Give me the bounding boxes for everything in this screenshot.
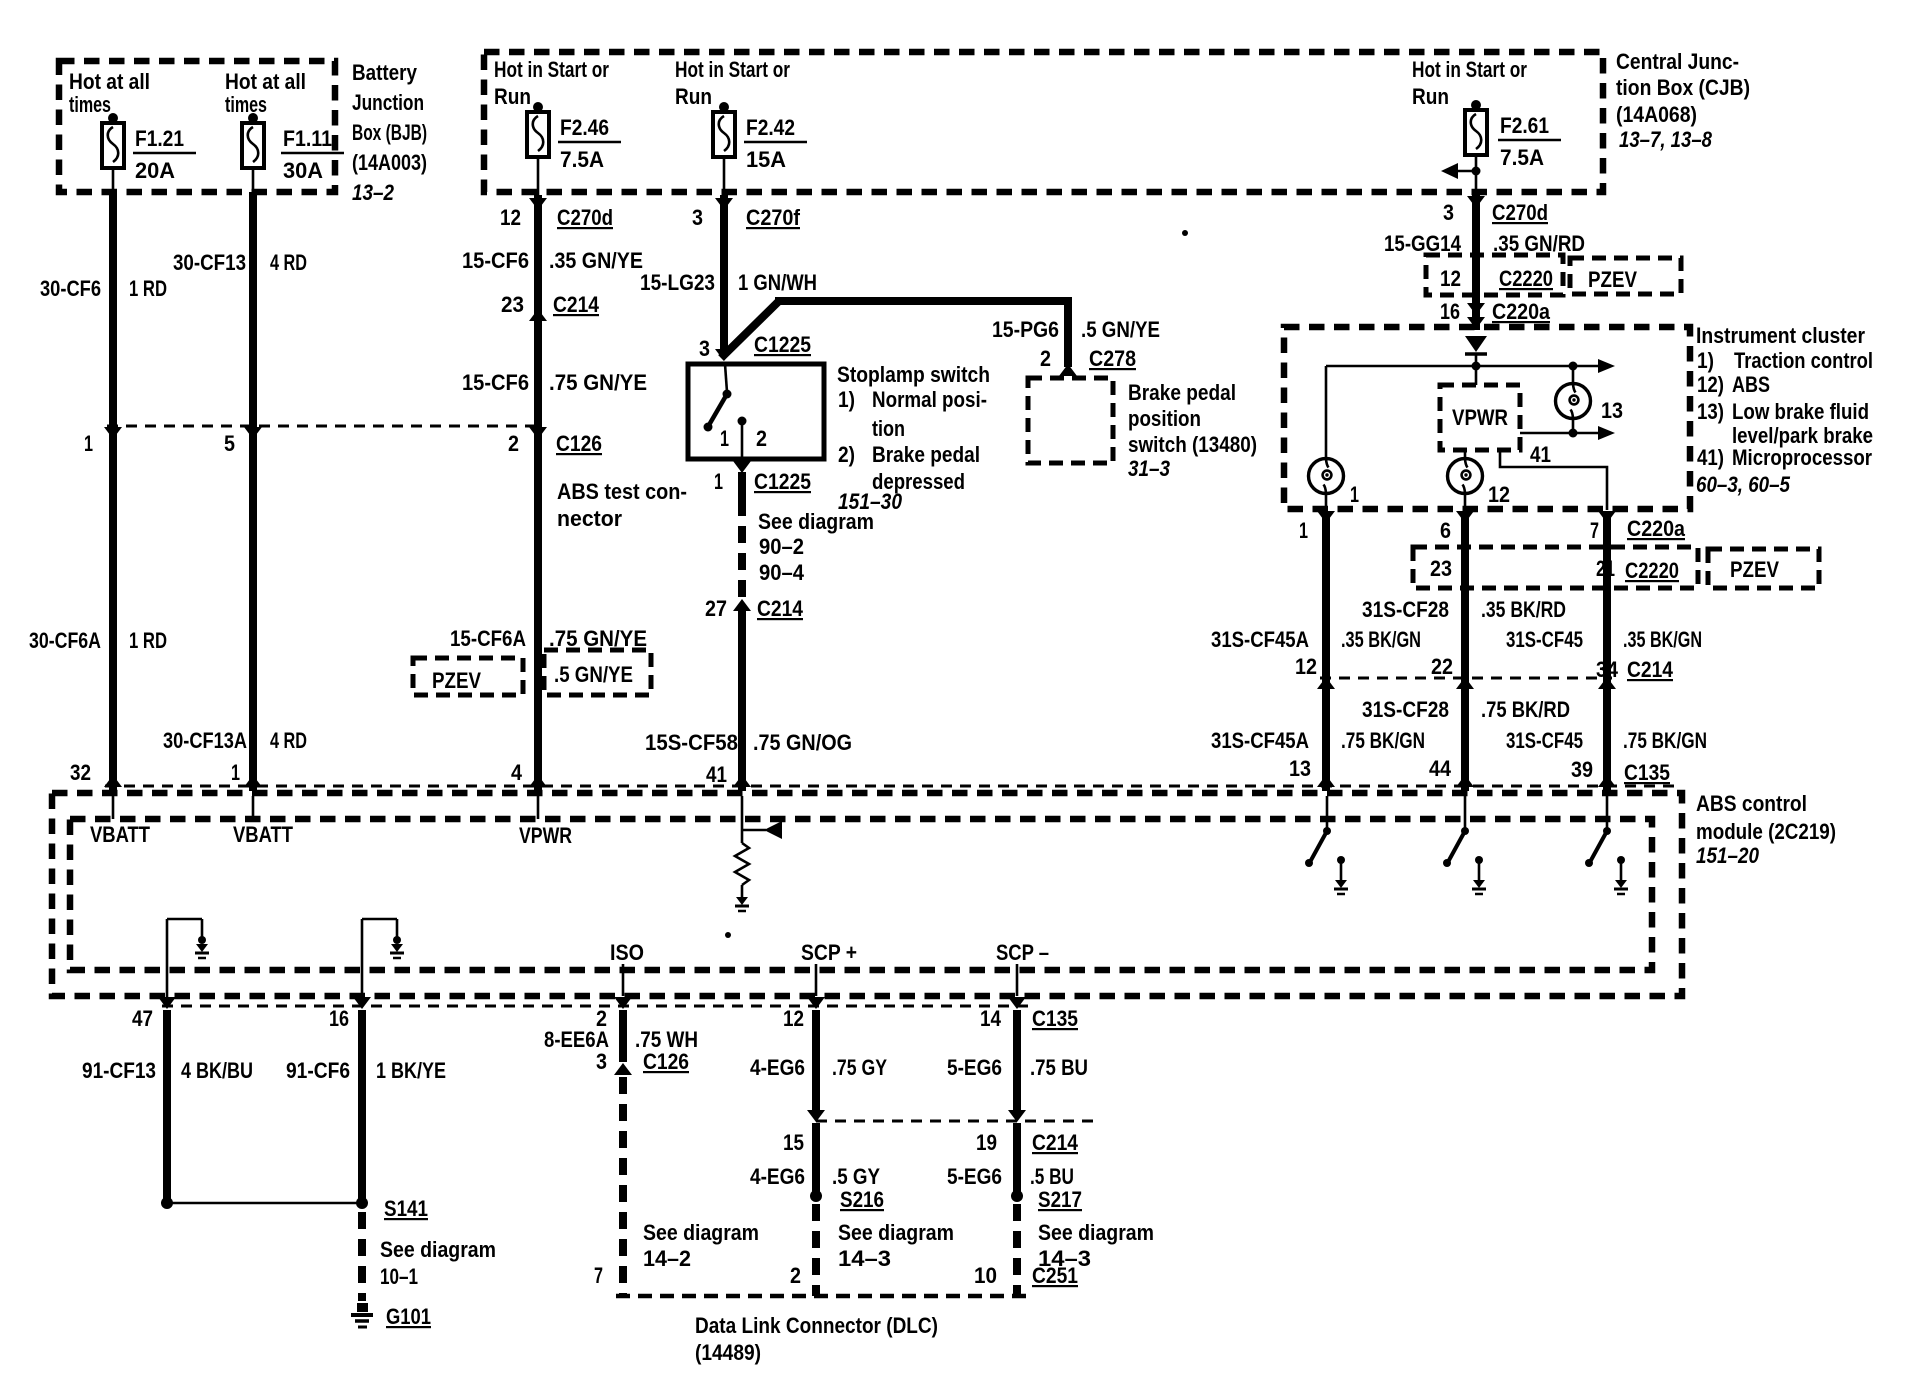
wire 30-CF6 1 RD (to module pin 32): [109, 192, 117, 791]
svg-text:19: 19: [976, 1130, 997, 1155]
svg-text:(14489): (14489): [695, 1340, 761, 1365]
wire pin 47 to internal ground: [167, 919, 209, 997]
svg-text:15A: 15A: [746, 147, 786, 172]
svg-text:1): 1): [838, 387, 855, 412]
arrow to microprocessor at pin 41: [742, 821, 782, 839]
PZEV dashed box below cluster: [1708, 549, 1819, 588]
node pin 2 C278 arrow: [1059, 364, 1077, 376]
svg-text:F2.42: F2.42: [746, 115, 795, 140]
speck artifact top: [1182, 230, 1188, 236]
svg-text:SCP +: SCP +: [801, 940, 857, 965]
svg-text:15-PG6: 15-PG6: [992, 317, 1059, 342]
wire VPWR to lamp 13 output: [1520, 432, 1600, 435]
svg-text:C220a: C220a: [1627, 516, 1686, 541]
svg-text:31S-CF45: 31S-CF45: [1506, 627, 1583, 652]
wire 41 microprocessor branch: [1500, 450, 1607, 510]
svg-text:Hot in Start or: Hot in Start or: [1412, 57, 1527, 82]
svg-text:1 RD: 1 RD: [129, 276, 167, 301]
svg-text:15-CF6A: 15-CF6A: [450, 626, 526, 651]
svg-text:C214: C214: [553, 292, 600, 317]
label 91-CF13 4 BK/BU: [82, 1058, 253, 1083]
Central Junction Box dashed outline: [484, 52, 1603, 192]
wire fuse F1.11 to BJB edge: [252, 168, 255, 192]
connector C135 dashed line top (module pins 32/1/4/41/13/44/39): [105, 785, 1674, 788]
indicator lamp 1 traction control: [1309, 459, 1344, 494]
svg-text:12: 12: [1488, 482, 1510, 507]
label pin 23 C214: [501, 292, 600, 317]
wire lamp 12 to cluster pin 6: [1464, 494, 1467, 510]
wire branch diagonal to 15-PG6: [721, 301, 779, 358]
svg-text:Box (BJB): Box (BJB): [352, 120, 427, 145]
label See diagram 14-3 right: [1038, 1220, 1154, 1271]
svg-text:44: 44: [1429, 756, 1452, 781]
svg-text:30-CF6: 30-CF6: [40, 276, 101, 301]
svg-text:ABS test con-: ABS test con-: [557, 479, 687, 504]
wire pin 41 inside module: [741, 796, 744, 843]
node dot lamp 13 branch: [1569, 362, 1578, 371]
svg-text:4-EG6: 4-EG6: [750, 1164, 805, 1189]
node cluster pin 1 arrow: [1317, 511, 1335, 523]
switch to ground inside module (pin 13): [1305, 796, 1348, 894]
svg-text:3: 3: [699, 336, 710, 361]
svg-text:2: 2: [790, 1263, 801, 1288]
CJB title text: [1616, 49, 1750, 152]
stoplamp switch arm: [709, 394, 727, 425]
svg-text:.35 GN/YE: .35 GN/YE: [549, 248, 643, 273]
node pin 1 arrow into module: [244, 775, 262, 787]
wire 15-LG23 1 GN/WH: [720, 195, 728, 355]
wire fuse F1.21 to BJB edge: [112, 168, 115, 192]
indicator lamp 12 ABS: [1448, 459, 1483, 494]
node pin 13 arrow into module: [1317, 775, 1335, 787]
wire pin 1 inside module: [252, 796, 255, 819]
label See diagram 14-3: [838, 1220, 954, 1271]
svg-text:C135: C135: [1624, 760, 1670, 785]
wire fuse F2.46 to CJB edge: [537, 157, 540, 195]
node pin 15 arrow on C214 line: [807, 1110, 825, 1122]
svg-text:G101: G101: [386, 1304, 431, 1329]
svg-text:21: 21: [1596, 556, 1615, 581]
label 31S-CF45A .75 BK/GN and 31S-CF45 .75 BK/GN: [1211, 728, 1707, 753]
svg-text:16: 16: [1440, 299, 1460, 324]
svg-text:Hot in Start or: Hot in Start or: [494, 57, 609, 82]
svg-text:16: 16: [329, 1006, 349, 1031]
svg-text:15S-CF58: 15S-CF58: [645, 730, 738, 755]
wire fuse F2.42 to CJB edge: [723, 157, 726, 195]
label See diagram 90-2 90-4: [758, 509, 874, 585]
label 4-EG6 .75 GY: [750, 1055, 887, 1080]
svg-text:.5 GY: .5 GY: [832, 1164, 880, 1189]
stoplamp switch pin 2 contact node: [738, 417, 747, 426]
svg-text:47: 47: [132, 1006, 153, 1031]
svg-text:14: 14: [980, 1006, 1002, 1031]
connector C135 dashed line bottom (module pins 47/16/2/12/14): [162, 1005, 1028, 1008]
label 15-LG23 1 GN/WH: [640, 270, 817, 295]
svg-text:C126: C126: [556, 431, 602, 456]
label See diagram 14-2: [643, 1220, 759, 1271]
svg-text:1: 1: [1350, 482, 1359, 507]
node pin 22 C214 arrow: [1456, 677, 1474, 689]
svg-text:Junction: Junction: [352, 90, 424, 115]
svg-text:3: 3: [1443, 200, 1454, 225]
svg-text:1: 1: [1299, 518, 1308, 543]
wire VPWR to lamp 12: [1464, 450, 1467, 459]
node pin 12 arrow out of module: [807, 997, 825, 1009]
BJB title text: [352, 60, 427, 205]
ground pin 41 pull-down: [735, 897, 749, 911]
label pins 2 / 12 / 14 C135: [596, 1006, 1078, 1031]
label 15-GG14 .35 GN/RD: [1384, 231, 1585, 256]
label 30-CF13 4 RD: [173, 250, 307, 275]
svg-text:C278: C278: [1089, 346, 1136, 371]
wire SCP- 5-EG6 .75 BU: [1013, 1010, 1021, 1110]
resistor inside ABS module: [735, 843, 749, 885]
ABS control module title text: [1696, 791, 1836, 868]
label pin 19 C214: [976, 1130, 1079, 1155]
svg-text:13): 13): [1697, 399, 1724, 424]
wire SCP- 5-EG6 .5 BU: [1013, 1123, 1021, 1196]
svg-text:30A: 30A: [283, 158, 323, 183]
node pin 2 arrow out of module: [614, 997, 632, 1009]
wire 30-CF13 4 RD (to module pin 1): [249, 192, 257, 791]
VPWR dashed box: [1440, 385, 1520, 450]
svg-text:5-EG6: 5-EG6: [947, 1164, 1002, 1189]
svg-text:See diagram: See diagram: [643, 1220, 759, 1245]
svg-text:F2.46: F2.46: [560, 115, 609, 140]
label Hot in Start or Run (fuse F2.42): [675, 57, 790, 109]
wire 15S-CF58 .75 GN/OG (to module pin 41): [738, 611, 746, 791]
svg-text:31–3: 31–3: [1128, 456, 1170, 481]
wire 15-GG14 .35 GN/RD: [1472, 192, 1480, 330]
svg-text:PZEV: PZEV: [1730, 557, 1779, 582]
svg-text:SCP –: SCP –: [996, 940, 1049, 965]
svg-text:See diagram: See diagram: [1038, 1220, 1154, 1245]
Brake pedal position switch label text: [1128, 380, 1257, 481]
Instrument cluster legend text: [1696, 323, 1873, 497]
svg-text:1: 1: [84, 431, 93, 456]
PZEV dashed box on wire 15-CF6A: [413, 658, 523, 695]
svg-text:See diagram: See diagram: [380, 1237, 496, 1262]
wire lamp 1 to cluster pin 1: [1325, 494, 1328, 510]
node pin 4 arrow into module: [529, 775, 547, 787]
node pin 34 C214 arrow: [1598, 677, 1616, 689]
svg-text:.35 GN/RD: .35 GN/RD: [1493, 231, 1585, 256]
svg-text:nector: nector: [557, 506, 622, 531]
node pin 16 arrow out of module: [353, 997, 371, 1009]
wire ISO inside module: [622, 964, 625, 996]
svg-text:Run: Run: [494, 84, 531, 109]
svg-text:2: 2: [508, 431, 519, 456]
svg-text:27: 27: [705, 596, 727, 621]
svg-text:91-CF13: 91-CF13: [82, 1058, 156, 1083]
svg-text:4 RD: 4 RD: [270, 250, 307, 275]
stoplamp switch pin 3 stub: [725, 364, 727, 392]
svg-text:C270d: C270d: [557, 205, 613, 230]
svg-text:31S-CF45A: 31S-CF45A: [1211, 627, 1309, 652]
svg-text:30-CF6A: 30-CF6A: [29, 628, 101, 653]
svg-text:position: position: [1128, 406, 1201, 431]
wire bus to VPWR box: [1475, 366, 1478, 385]
svg-text:41: 41: [1530, 442, 1551, 467]
svg-text:Brake pedal: Brake pedal: [872, 442, 980, 467]
fuse F1.11 30A: [242, 113, 344, 183]
svg-text:S141: S141: [384, 1196, 428, 1221]
Data Link Connector label text: [695, 1313, 938, 1365]
wire 31S-CF45A cluster pin 1 to module pin 13: [1322, 514, 1330, 791]
svg-text:12: 12: [1440, 266, 1461, 291]
svg-text:12: 12: [783, 1006, 804, 1031]
svg-text:C214: C214: [757, 596, 804, 621]
svg-text:20A: 20A: [135, 158, 175, 183]
label switch contacts 1 2: [720, 426, 767, 451]
ABS test connector label: [557, 479, 687, 531]
node pin 19 arrow on C214 line: [1008, 1110, 1026, 1122]
svg-text:.75 GN/YE: .75 GN/YE: [549, 626, 647, 651]
label 5-EG6 .75 BU: [947, 1055, 1088, 1080]
svg-text:14–3: 14–3: [838, 1246, 891, 1271]
wire bus to lamp 1: [1325, 366, 1328, 459]
svg-text:90–2: 90–2: [759, 534, 804, 559]
svg-text:times: times: [225, 92, 267, 117]
node splice S141: [356, 1197, 368, 1209]
svg-text:S216: S216: [840, 1187, 884, 1212]
svg-text:6: 6: [1440, 518, 1451, 543]
svg-text:times: times: [69, 92, 111, 117]
label 31S-CF45A .35 BK/GN and 31S-CF45 .35 BK/GN: [1211, 627, 1702, 652]
svg-text:13–2: 13–2: [352, 180, 395, 205]
wire S141 to G101 dashed (see diagram 10-1): [358, 1212, 366, 1301]
label Hot in Start or Run (fuse F2.46): [494, 57, 609, 109]
label pin 3 C126: [596, 1049, 689, 1074]
label pin 16 C220a: [1440, 299, 1551, 324]
svg-text:151–20: 151–20: [1696, 843, 1760, 868]
svg-text:7: 7: [594, 1263, 603, 1288]
svg-text:.75 BK/GN: .75 BK/GN: [1341, 728, 1425, 753]
svg-text:tion Box (CJB): tion Box (CJB): [1616, 75, 1750, 100]
svg-text:Hot in Start or: Hot in Start or: [675, 57, 790, 82]
svg-text:.75 BK/RD: .75 BK/RD: [1481, 697, 1570, 722]
svg-text:.35 BK/GN: .35 BK/GN: [1341, 627, 1421, 652]
wire splice link to S141: [167, 1202, 362, 1205]
fuse F1.21 20A: [102, 113, 196, 183]
svg-text:PZEV: PZEV: [432, 668, 481, 693]
svg-text:F1.11: F1.11: [283, 126, 332, 151]
svg-text:.75 GY: .75 GY: [832, 1055, 887, 1080]
svg-text:Traction control: Traction control: [1734, 348, 1873, 373]
node pin 5 arrow on C126 line: [244, 427, 262, 439]
svg-text:C2220: C2220: [1625, 558, 1679, 583]
label See diagram 10-1: [380, 1237, 496, 1289]
svg-text:C1225: C1225: [754, 469, 811, 494]
label pin 27 C214: [705, 596, 804, 621]
svg-text:.5 GN/YE: .5 GN/YE: [554, 662, 633, 687]
svg-text:C126: C126: [643, 1049, 689, 1074]
label 4-EG6 .5 GY: [750, 1164, 880, 1189]
svg-text:91-CF6: 91-CF6: [286, 1058, 350, 1083]
svg-text:Hot at all: Hot at all: [225, 69, 306, 94]
node splice S217: [1011, 1190, 1023, 1202]
connector C2220 dashed box on CJB wire: [1426, 255, 1563, 295]
wire 91-CF13 4 BK/BU (pin 47): [163, 1010, 171, 1203]
svg-text:31S-CF28: 31S-CF28: [1362, 697, 1449, 722]
svg-text:2): 2): [838, 442, 855, 467]
svg-text:Instrument cluster: Instrument cluster: [1696, 323, 1865, 348]
label 15-PG6 .5 GN/YE: [992, 317, 1160, 342]
svg-text:7.5A: 7.5A: [1500, 145, 1544, 170]
label 15S-CF58 .75 GN/OG: [645, 730, 852, 755]
wire 91-CF6 1 BK/YE (pin 16): [358, 1010, 366, 1203]
ABS control module outer dashed box: [52, 793, 1682, 996]
wire 31S-CF45 cluster pin 7 to module pin 39: [1603, 514, 1611, 791]
label pin 12 C270d: [500, 205, 613, 230]
dashed box .5 GN/YE (PZEV wire colour): [544, 650, 651, 695]
node pin 14 arrow out of module: [1008, 997, 1026, 1009]
label pins 23 / 21 C2220: [1430, 556, 1679, 583]
node pin 32 arrow into module: [104, 775, 122, 787]
Battery Junction Box (BJB) dashed box: [59, 61, 335, 192]
label pin 3 C1225: [699, 332, 811, 361]
svg-text:41): 41): [1697, 445, 1724, 470]
DLC intermediate dashed line (pins 15/19 C214): [816, 1120, 1100, 1123]
PZEV dashed box on CJB wire: [1570, 258, 1681, 294]
node pin 3 C126 arrow on ISO wire: [614, 1063, 632, 1075]
stoplamp switch pivot node: [723, 390, 732, 399]
label 30-CF6A 1 RD: [29, 628, 167, 653]
svg-text:41: 41: [706, 762, 727, 787]
svg-text:C2220: C2220: [1499, 266, 1553, 291]
svg-text:C1225: C1225: [754, 332, 811, 357]
svg-text:4-EG6: 4-EG6: [750, 1055, 805, 1080]
svg-text:.75 BK/GN: .75 BK/GN: [1623, 728, 1707, 753]
svg-text:C270f: C270f: [746, 205, 801, 230]
fuse F2.61 7.5A: [1465, 100, 1561, 170]
svg-text:ABS control: ABS control: [1696, 791, 1807, 816]
node pin 23 C214 arrow: [529, 309, 547, 321]
label Hot in Start or Run (fuse F2.61): [1412, 57, 1527, 109]
svg-text:C220a: C220a: [1492, 299, 1551, 324]
node pin 27 C214 arrow: [733, 599, 751, 611]
fuse F2.42 15A: [713, 102, 807, 172]
svg-text:Low brake fluid: Low brake fluid: [1732, 399, 1869, 424]
node cluster pin 6 arrow: [1456, 511, 1474, 523]
Data Link Connector bottom dashed line: [616, 1294, 1030, 1299]
label 31S-CF28 .75 BK/RD: [1362, 697, 1570, 722]
svg-text:23: 23: [1430, 556, 1452, 581]
svg-text:1 GN/WH: 1 GN/WH: [738, 270, 817, 295]
label Hot at all times (fuse F1.21): [69, 69, 150, 117]
node splice dot wire 47: [161, 1197, 173, 1209]
wire SCP+ inside module: [815, 964, 818, 996]
node cluster pin 7 arrow: [1598, 511, 1616, 523]
svg-text:PZEV: PZEV: [1588, 267, 1637, 292]
label pins 47 / 16: [132, 1006, 349, 1031]
wire bus to lamp 13: [1572, 366, 1575, 384]
svg-text:F1.21: F1.21: [135, 126, 184, 151]
node pin 3 C270f arrow: [715, 198, 733, 210]
svg-text:VPWR: VPWR: [519, 823, 572, 848]
svg-text:3: 3: [692, 205, 703, 230]
connector C2220 dashed box below cluster: [1413, 547, 1698, 588]
label 91-CF6 1 BK/YE: [286, 1058, 446, 1083]
stoplamp switch pin 2 wire inside box: [741, 421, 744, 461]
svg-text:13: 13: [1289, 756, 1311, 781]
node pin 16 C220a double arrows: [1467, 303, 1485, 315]
speck artifact middle: [725, 932, 731, 938]
label Hot at all times (fuse F1.11): [225, 69, 306, 117]
node pin 12 C214 arrow: [1317, 677, 1335, 689]
svg-text:32: 32: [70, 760, 91, 785]
svg-text:Brake pedal: Brake pedal: [1128, 380, 1236, 405]
svg-text:1: 1: [720, 426, 729, 451]
svg-text:2: 2: [1040, 346, 1051, 371]
svg-text:3: 3: [596, 1049, 607, 1074]
svg-text:15-CF6: 15-CF6: [462, 370, 529, 395]
svg-text:Central Junc-: Central Junc-: [1616, 49, 1739, 74]
label pin 1 C1225: [714, 469, 811, 494]
svg-text:90–4: 90–4: [759, 560, 805, 585]
label pin 3 C270d: [1443, 200, 1548, 225]
label pins 13 / 44 / 39 C135: [1289, 756, 1670, 785]
svg-text:(14A068): (14A068): [1616, 102, 1697, 127]
svg-text:14–2: 14–2: [643, 1246, 691, 1271]
wire S217 dashed to DLC pin 10 (see diagram 14-3): [1013, 1204, 1021, 1296]
label pin 2 C278: [1040, 346, 1136, 371]
ABS control module inner dashed box: [70, 819, 1652, 970]
svg-text:10: 10: [974, 1263, 997, 1288]
wire resistor to ground: [741, 885, 744, 898]
svg-text:tion: tion: [872, 416, 905, 441]
Stoplamp switch label text: [837, 362, 990, 514]
svg-text:31S-CF45A: 31S-CF45A: [1211, 728, 1309, 753]
svg-text:VBATT: VBATT: [90, 822, 150, 847]
wire fuse F2.61 to CJB edge: [1475, 155, 1478, 192]
indicator lamp 13 low brake fluid / park brake: [1556, 384, 1591, 419]
label 30-CF6 1 RD: [40, 276, 167, 301]
svg-text:5-EG6: 5-EG6: [947, 1055, 1002, 1080]
node pin 47 arrow out of module: [158, 997, 176, 1009]
svg-text:S217: S217: [1038, 1187, 1082, 1212]
wire ISO dashed to DLC (see diagram 14-2): [619, 1077, 627, 1296]
svg-text:Microprocessor: Microprocessor: [1732, 445, 1872, 470]
svg-text:C251: C251: [1032, 1263, 1078, 1288]
svg-text:.75 BU: .75 BU: [1030, 1055, 1088, 1080]
svg-text:ABS: ABS: [1732, 372, 1770, 397]
wire lamp 13 output: [1572, 418, 1575, 433]
svg-text:module (2C219): module (2C219): [1696, 819, 1836, 844]
svg-text:13–7, 13–8: 13–7, 13–8: [1619, 127, 1713, 152]
svg-text:Stoplamp switch: Stoplamp switch: [837, 362, 990, 387]
svg-text:Data Link Connector (DLC): Data Link Connector (DLC): [695, 1313, 938, 1338]
wire ISO 8-EE6A .75 WH: [619, 1010, 627, 1062]
diode at instrument cluster supply: [1465, 336, 1487, 366]
label pins 12 / 22 / 34 C214: [1295, 654, 1674, 682]
svg-text:4: 4: [511, 760, 523, 785]
svg-text:See diagram: See diagram: [758, 509, 874, 534]
label 30-CF13A 4 RD: [163, 728, 307, 753]
label 15-CF6A .75 GN/YE: [450, 626, 647, 651]
node pin 39 arrow into module: [1598, 775, 1616, 787]
wire pin 4 inside module: [537, 796, 540, 819]
svg-text:(14A003): (14A003): [352, 150, 427, 175]
svg-text:VBATT: VBATT: [233, 822, 293, 847]
node pin 3 C1225 arrow at stoplamp switch: [715, 349, 733, 361]
svg-text:Run: Run: [1412, 84, 1449, 109]
svg-text:1: 1: [231, 760, 240, 785]
wire 15-PG6 horizontal run: [775, 297, 1068, 305]
switch to ground inside module (pin 44): [1443, 796, 1486, 894]
svg-text:.35 BK/GN: .35 BK/GN: [1623, 627, 1702, 652]
svg-text:.5 BU: .5 BU: [1030, 1164, 1074, 1189]
